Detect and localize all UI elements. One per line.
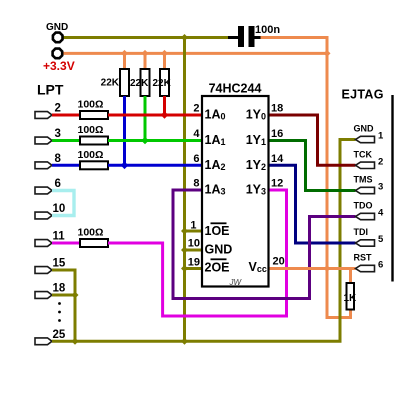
- svg-text:19: 19: [188, 257, 200, 269]
- wire stub 1OE: [185, 230, 203, 233]
- svg-text:18: 18: [271, 103, 283, 115]
- wire LPT8 blue lead: [52, 164, 80, 167]
- svg-text:100Ω: 100Ω: [78, 124, 104, 136]
- junction dot orange rail / 22K#2: [142, 50, 149, 57]
- svg-text:4: 4: [378, 208, 384, 219]
- svg-text:GND: GND: [205, 243, 233, 257]
- resistor R 22K #1 (pull-up, blue net): [123, 53, 126, 69]
- svg-text:20: 20: [273, 256, 285, 268]
- EJTAG pin 3 TMS connector: [356, 187, 375, 193]
- svg-text:14: 14: [271, 153, 284, 165]
- junction dot orange rail / 22K#3: [161, 50, 168, 57]
- LPT pin 10 connector: [35, 212, 52, 219]
- svg-text:74HC244: 74HC244: [209, 82, 262, 96]
- svg-text:22K: 22K: [101, 78, 120, 89]
- EJTAG right border line: [391, 95, 393, 282]
- wire 1K top lead: [349, 269, 352, 284]
- svg-text:22K: 22K: [130, 78, 149, 89]
- svg-text:100Ω: 100Ω: [78, 99, 104, 111]
- wire cyan link pin6-pin10: [52, 191, 74, 216]
- junction dot 22K#2 to green row: [141, 137, 149, 145]
- wire 1Y0 to TCK (dark red): [269, 115, 356, 165]
- svg-text:2: 2: [55, 103, 61, 115]
- wire LPT2 red lead: [52, 114, 80, 117]
- svg-text:8: 8: [55, 153, 62, 165]
- svg-text:10: 10: [53, 203, 66, 215]
- resistor 100R #2: [80, 137, 108, 145]
- svg-text:4: 4: [193, 128, 200, 140]
- svg-text:1: 1: [190, 220, 196, 232]
- resistor 100R #3: [80, 161, 108, 169]
- svg-text:25: 25: [53, 329, 66, 341]
- svg-text:LPT: LPT: [37, 82, 64, 98]
- svg-text:22K: 22K: [153, 78, 172, 89]
- svg-text:GND: GND: [354, 124, 375, 134]
- wire LPT11 magenta lead: [52, 242, 80, 245]
- connector pad GND: [53, 33, 63, 43]
- EJTAG pin 4 TDO connector: [356, 213, 375, 219]
- LPT pin 15 connector: [35, 267, 52, 274]
- svg-text:TDI: TDI: [354, 227, 369, 237]
- svg-text:18: 18: [53, 283, 66, 295]
- junction dot bus/left GND vertical: [181, 338, 188, 345]
- svg-text:3: 3: [378, 182, 383, 193]
- IC U1 74HC244 box: [202, 96, 269, 287]
- svg-text:11: 11: [53, 231, 66, 243]
- svg-text:TMS: TMS: [354, 175, 373, 185]
- resistor 100R #4: [80, 239, 108, 247]
- LPT pin 2 connector: [35, 112, 52, 119]
- svg-text:3: 3: [55, 128, 61, 140]
- LPT pin 25 connector: [35, 338, 52, 345]
- junction dot pin18: [72, 292, 79, 299]
- wire LPT3 green lead: [52, 139, 80, 142]
- resistor 100R #1: [80, 111, 108, 119]
- capacitor C1 100n: [228, 36, 238, 39]
- svg-text:8: 8: [193, 178, 199, 190]
- wire 1Y1 to TMS (dark green): [269, 141, 356, 191]
- EJTAG pin 5 TDI connector: [356, 240, 375, 246]
- svg-text:100n: 100n: [255, 24, 280, 36]
- svg-text:1K: 1K: [344, 293, 358, 304]
- svg-text:EJTAG: EJTAG: [342, 88, 384, 102]
- EJTAG pin 2 TCK connector: [356, 162, 375, 168]
- wire +3.3V rail top: [62, 52, 327, 55]
- svg-text:6: 6: [378, 260, 383, 271]
- svg-text:100Ω: 100Ω: [78, 149, 104, 161]
- resistor R 22K #2 (pull-up, green net): [144, 53, 147, 69]
- svg-text:100Ω: 100Ω: [78, 227, 104, 239]
- LPT pin 6 connector: [35, 187, 52, 194]
- junction dot GND rail: [181, 34, 188, 41]
- wire left GND vertical: [183, 38, 186, 342]
- wire Vcc / RST row (orange): [269, 267, 356, 270]
- svg-text:15: 15: [53, 258, 66, 270]
- svg-text:2: 2: [193, 103, 199, 115]
- LPT pin 3 connector: [35, 137, 52, 144]
- EJTAG pin 1 GND connector: [356, 136, 375, 142]
- wire LPT2 to 1A0: [108, 114, 202, 117]
- svg-text:1OE: 1OE: [205, 224, 230, 238]
- wire TDO to 1A3 (purple): [173, 190, 356, 299]
- svg-text:6: 6: [55, 178, 61, 190]
- wire LPT3 to 1A1: [108, 139, 202, 142]
- junction dot +3.3V rail / vertical: [324, 50, 331, 57]
- connector pad +3.3V: [53, 49, 63, 59]
- junction dot 22K#1 to blue row: [121, 162, 129, 170]
- EJTAG pin 6 RST connector: [356, 265, 375, 271]
- LPT pin 11 connector: [35, 240, 52, 247]
- wire stub 2OE: [185, 267, 203, 270]
- junction dot 22K#3 to red row: [161, 111, 169, 119]
- resistor R 1K: [347, 283, 355, 310]
- ellipsis dots between 18 and 25: [58, 302, 61, 305]
- wire LPT11 to 1Y3 (magenta route): [108, 190, 287, 316]
- svg-text:2OE: 2OE: [205, 261, 230, 275]
- svg-text:1: 1: [378, 131, 384, 142]
- junction dot bus/pin15 vertical: [72, 338, 79, 345]
- svg-text:JW: JW: [229, 278, 243, 287]
- svg-text:6: 6: [193, 153, 199, 165]
- junction dot orange rail / 22K#1: [121, 50, 128, 57]
- wire LPT8 to 1A2: [108, 164, 202, 167]
- wire GND rail top: [64, 36, 229, 39]
- LPT pin 8 connector: [35, 162, 52, 169]
- resistor R 22K #3 (pull-up, red net): [163, 53, 166, 69]
- wire stub GND pin10: [185, 249, 203, 252]
- svg-text:12: 12: [271, 178, 283, 190]
- svg-text:16: 16: [271, 128, 283, 140]
- svg-text:+3.3V: +3.3V: [43, 59, 75, 73]
- svg-text:5: 5: [378, 234, 384, 245]
- wire LPT15 to ground bus: [52, 270, 75, 341]
- wire capacitor to +3.3V vertical branch: [261, 38, 328, 54]
- junction dot Vcc row / +3.3V vertical: [324, 265, 331, 272]
- svg-text:10: 10: [188, 238, 200, 250]
- wire LPT18 stub: [52, 294, 75, 297]
- svg-text:RST: RST: [354, 253, 373, 263]
- wire +3.3V vertical rail right: [327, 53, 351, 317]
- svg-text:TDO: TDO: [354, 201, 373, 211]
- wire ground bus bottom: [52, 140, 356, 342]
- svg-text:2: 2: [378, 156, 383, 167]
- LPT pin 18 connector: [35, 292, 52, 299]
- wire 1Y2 to TDI (navy): [269, 165, 356, 243]
- svg-text:TCK: TCK: [354, 149, 373, 159]
- svg-text:GND: GND: [46, 22, 68, 33]
